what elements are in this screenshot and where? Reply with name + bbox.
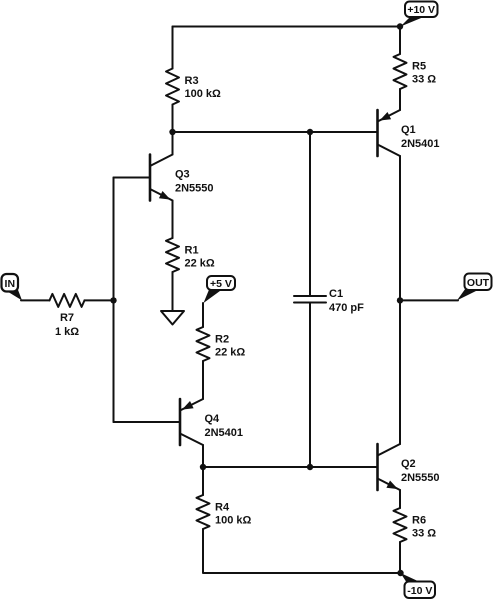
svg-text:1 kΩ: 1 kΩ [55, 326, 79, 338]
svg-text:Q2: Q2 [401, 458, 416, 470]
svg-text:OUT: OUT [467, 277, 490, 289]
svg-text:22 kΩ: 22 kΩ [185, 258, 215, 270]
node top rail +10V [397, 23, 403, 29]
label R6 value [412, 515, 436, 540]
resistor R6 [394, 508, 407, 542]
label C1 value [329, 288, 364, 314]
svg-text:33 Ω: 33 Ω [412, 74, 436, 86]
capacitor C1 [294, 296, 326, 303]
wire R4 top lead [202, 467, 204, 495]
svg-text:Q3: Q3 [175, 169, 190, 181]
svg-text:2N5401: 2N5401 [205, 427, 244, 439]
wire C1 bottom lead [309, 303, 311, 468]
label Q1 value [401, 124, 440, 150]
wire R5 top lead [399, 27, 401, 55]
label R4 value [215, 502, 252, 527]
svg-text:+10 V: +10 V [407, 4, 435, 16]
label R1 value [185, 245, 215, 270]
resistor R4 [197, 495, 210, 529]
wire Q2 emitter / R6 top lead [399, 490, 401, 508]
svg-text:R3: R3 [185, 75, 199, 87]
wire R5 bottom lead [399, 89, 401, 110]
svg-text:R7: R7 [60, 312, 74, 324]
transistor Q3 [150, 155, 173, 201]
label R3 value [185, 75, 222, 100]
wire C1 top lead [309, 132, 311, 296]
svg-text:22 kΩ: 22 kΩ [215, 347, 245, 359]
node OUT [397, 297, 403, 303]
power flag +10 V [401, 2, 438, 27]
wire Q3 base stub [114, 177, 151, 179]
label Q2 value [401, 458, 440, 484]
svg-text:R2: R2 [215, 334, 229, 346]
svg-text:470 pF: 470 pF [329, 302, 364, 314]
svg-text:100 kΩ: 100 kΩ [215, 515, 252, 527]
transistor Q4 [180, 399, 203, 445]
svg-text:R4: R4 [215, 502, 230, 514]
svg-text:33 Ω: 33 Ω [412, 528, 436, 540]
wire Q1 collector to OUT node [399, 156, 401, 300]
svg-text:100 kΩ: 100 kΩ [185, 88, 222, 100]
label Q4 value [205, 413, 244, 439]
svg-text:2N5550: 2N5550 [175, 183, 214, 195]
svg-text:C1: C1 [329, 288, 343, 300]
resistor R7 [50, 294, 85, 307]
terminal IN [2, 274, 23, 300]
svg-text:IN: IN [5, 278, 16, 290]
resistor R3 [166, 69, 179, 105]
svg-text:R1: R1 [185, 245, 199, 257]
ground [161, 311, 184, 325]
wire R7 to node [85, 299, 114, 301]
svg-text:+5 V: +5 V [210, 278, 232, 290]
terminal OUT [457, 274, 492, 301]
resistor R2 [197, 327, 210, 361]
wire input base bus vertical [113, 178, 115, 423]
svg-text:R6: R6 [412, 515, 426, 527]
wire +5V lead [202, 303, 204, 327]
svg-text:2N5550: 2N5550 [401, 472, 440, 484]
svg-text:-10 V: -10 V [407, 585, 432, 597]
svg-text:2N5401: 2N5401 [401, 138, 440, 150]
label Q3 value [175, 169, 214, 195]
node Q4 collector [200, 464, 206, 470]
wire top rail [173, 26, 401, 28]
wire OUT stub [400, 299, 458, 301]
node C1 top [307, 129, 313, 135]
transistor Q2 [378, 444, 401, 490]
label R2 value [215, 334, 245, 359]
wire R4 bottom lead and bottom rail [203, 529, 401, 573]
wire Q3 collector lead [172, 132, 174, 155]
wire R3 bottom lead [172, 105, 174, 133]
wire Q4 base stub [114, 421, 181, 423]
label R5 value [412, 61, 436, 86]
wire Q4 collector lead [202, 445, 204, 467]
wire Q3 emitter / R1 top lead [172, 201, 174, 239]
wire R3 top lead [172, 27, 174, 69]
power flag -10 V [401, 573, 436, 598]
svg-text:Q1: Q1 [401, 124, 416, 136]
transistor Q1 [378, 110, 401, 156]
wire IN lead [21, 299, 50, 301]
svg-text:R5: R5 [412, 61, 426, 73]
wire lower mid rail to Q2 base [203, 466, 378, 468]
wire R2 bottom lead [202, 361, 204, 399]
node bottom rail -10V [397, 570, 403, 576]
wire mid rail to Q1 base [173, 131, 378, 133]
resistor R5 [394, 54, 407, 89]
resistor R1 [166, 238, 179, 272]
wire Q2 collector to OUT node [399, 300, 401, 444]
power flag +5 V [204, 276, 236, 303]
node C1 bottom [307, 464, 313, 470]
node R3 bottom [169, 129, 175, 135]
svg-text:Q4: Q4 [205, 413, 221, 425]
wire R1 bottom lead [172, 272, 174, 311]
node R7 junction [110, 297, 116, 303]
wire R6 bottom lead [399, 542, 401, 573]
label R7 value [55, 312, 79, 338]
